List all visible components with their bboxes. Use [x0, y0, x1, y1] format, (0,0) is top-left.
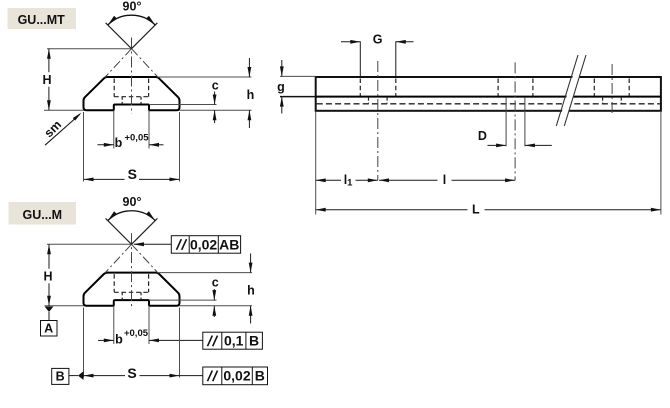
- svg-text:h: h: [247, 283, 255, 297]
- svg-text:0,1: 0,1: [224, 333, 244, 349]
- svg-text:H: H: [43, 269, 52, 283]
- svg-text:c: c: [212, 276, 219, 290]
- svg-text:G: G: [373, 33, 383, 47]
- svg-text:0,02: 0,02: [223, 368, 250, 384]
- svg-text:AB: AB: [219, 236, 239, 252]
- svg-text:GU...M: GU...M: [23, 208, 63, 222]
- svg-text:g: g: [277, 80, 285, 94]
- svg-text:90°: 90°: [123, 195, 142, 209]
- svg-text:D: D: [478, 129, 487, 143]
- svg-text:S: S: [128, 166, 137, 182]
- svg-text:H: H: [42, 73, 51, 87]
- svg-text:+0,05: +0,05: [124, 133, 149, 144]
- svg-text:h: h: [247, 88, 255, 102]
- svg-text:B: B: [249, 333, 259, 349]
- svg-text:l: l: [443, 173, 446, 187]
- svg-text:b: b: [115, 136, 123, 150]
- svg-text:90°: 90°: [123, 0, 142, 14]
- svg-text:A: A: [44, 322, 53, 336]
- svg-text:B: B: [255, 368, 265, 384]
- svg-text:B: B: [56, 370, 65, 384]
- svg-text:c: c: [212, 79, 219, 93]
- svg-text:b: b: [115, 332, 123, 346]
- svg-text:0,02: 0,02: [190, 236, 217, 252]
- svg-text:GU...MT: GU...MT: [18, 13, 66, 27]
- svg-text:L: L: [472, 203, 480, 217]
- svg-text:1: 1: [347, 178, 353, 189]
- svg-text:S: S: [127, 365, 136, 381]
- svg-text:+0,05: +0,05: [124, 328, 149, 339]
